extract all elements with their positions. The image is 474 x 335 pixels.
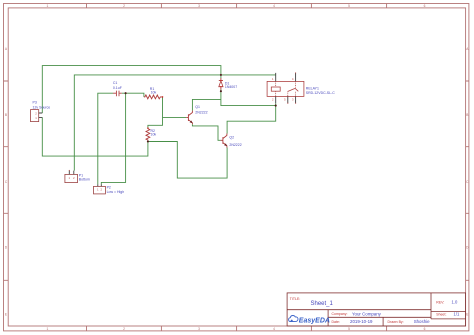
svg-text:Bottom: Bottom [79, 178, 90, 182]
svg-text:TITLE:: TITLE: [290, 297, 301, 301]
svg-text:Q2: Q2 [229, 135, 234, 139]
svg-text:1N4007: 1N4007 [225, 85, 237, 89]
svg-text:6: 6 [424, 327, 426, 331]
svg-text:Low = High: Low = High [107, 190, 125, 194]
svg-text:B: B [466, 113, 468, 117]
wire D1 anode link [220, 90, 222, 92]
wire D1 cathode link [220, 75, 222, 78]
svg-text:2: 2 [123, 327, 125, 331]
svg-text:2N2222: 2N2222 [229, 143, 241, 147]
svg-text:1.0: 1.0 [452, 300, 458, 305]
svg-text:Q1: Q1 [195, 105, 200, 109]
title block [287, 293, 466, 326]
resistor R1 [144, 87, 163, 99]
diode D1 [219, 78, 237, 90]
transistor Q2 [221, 134, 242, 148]
svg-text:3: 3 [198, 4, 200, 8]
svg-text:RELAY1: RELAY1 [306, 86, 319, 90]
svg-text:2019-10-19: 2019-10-19 [350, 319, 373, 324]
svg-text:0.1uF: 0.1uF [113, 86, 122, 90]
svg-text:5: 5 [348, 4, 350, 8]
svg-text:6: 6 [424, 4, 426, 8]
svg-text:SRD-12VDC-SL-C: SRD-12VDC-SL-C [306, 91, 335, 95]
relay RELAY1 [267, 72, 335, 103]
svg-text:Date:: Date: [332, 320, 340, 324]
svg-text:2: 2 [123, 4, 125, 8]
svg-text:1: 1 [47, 4, 49, 8]
wire rail to relay coil+ and P1 [74, 75, 275, 171]
wire Q2 emitter to ground net [148, 142, 227, 179]
svg-text:C1: C1 [113, 81, 118, 85]
svg-text:REV:: REV: [436, 301, 444, 305]
svg-text:10k: 10k [151, 133, 157, 137]
junction at R2 bottom [147, 140, 149, 142]
svg-text:E: E [466, 312, 468, 316]
svg-text:P3: P3 [33, 100, 37, 104]
svg-text:B: B [5, 113, 7, 117]
wire 12V: P3 pin2 up and across top to D1 column [42, 66, 221, 113]
wire R1 right down to R2 top, with base tap [148, 97, 163, 128]
junction at D1 top [220, 74, 222, 76]
svg-text:4: 4 [273, 327, 275, 331]
connector P3 [31, 100, 51, 121]
svg-text:Your Company: Your Company [352, 311, 382, 316]
wire base tap to Q1 [163, 116, 187, 118]
wire P2 pin1 up to C1 left [98, 93, 113, 184]
svg-text:E: E [5, 312, 7, 316]
svg-text:10k: 10k [151, 90, 157, 94]
svg-text:5: 5 [348, 327, 350, 331]
svg-text:Sheet:: Sheet: [436, 313, 446, 317]
svg-text:12v Source: 12v Source [33, 105, 51, 109]
svg-text:1/1: 1/1 [454, 312, 460, 317]
wire P2 pin2 elbow up to C1 right junction [101, 93, 125, 184]
transistor Q1 [186, 105, 207, 125]
svg-text:4: 4 [273, 4, 275, 8]
svg-text:Company:: Company: [332, 312, 348, 316]
svg-text:Sheet_1: Sheet_1 [311, 301, 334, 307]
junction at relay coil- [275, 105, 277, 107]
svg-text:1: 1 [47, 327, 49, 331]
connector P2 [94, 184, 125, 194]
svg-text:2N2222: 2N2222 [195, 111, 207, 115]
svg-text:Shoshie: Shoshie [414, 319, 430, 324]
junction at C1 right [125, 92, 127, 94]
resistor R2 [146, 127, 156, 141]
svg-text:Drawn By:: Drawn By: [388, 320, 404, 324]
wire GND: P3 pin1 down, across, up to R2 bottom [42, 117, 148, 156]
connector P1 [65, 170, 90, 183]
capacitor C1 [113, 81, 122, 96]
junction at D1 bottom [220, 90, 222, 92]
wire C1 right to R1 left with step [122, 93, 144, 97]
EasyEDA logo [289, 316, 330, 325]
svg-text:3: 3 [198, 327, 200, 331]
wire Q1 emitter to Q2 base [192, 124, 220, 140]
svg-text:EasyEDA: EasyEDA [299, 317, 330, 324]
wire Q1 collector to D1 bottom column [192, 99, 221, 110]
wire Q2 collector to relay coil- junction [227, 106, 276, 134]
wire D1 anode down and right to relay coil- [221, 91, 276, 105]
